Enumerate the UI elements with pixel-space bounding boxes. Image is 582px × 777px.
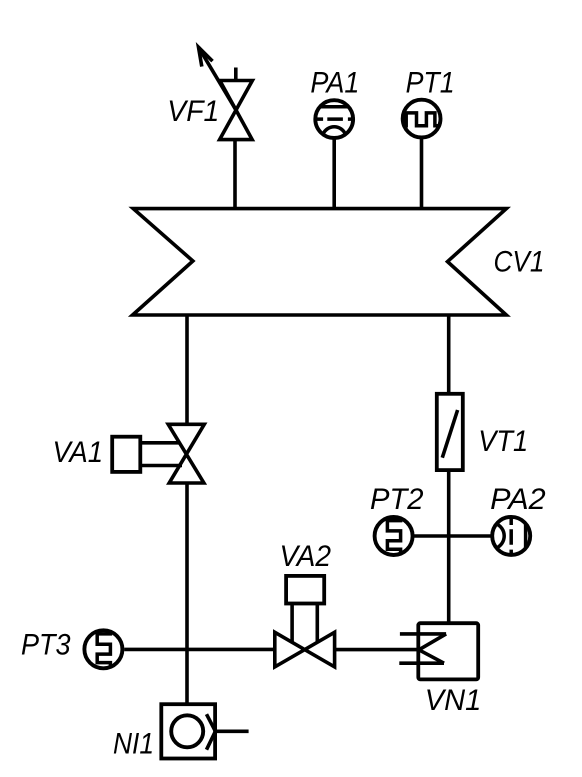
svg-text:PA2: PA2: [490, 483, 546, 516]
svg-text:PT2: PT2: [370, 483, 424, 516]
svg-text:VN1: VN1: [425, 684, 482, 717]
svg-text:VA2: VA2: [280, 540, 332, 573]
svg-text:NI1: NI1: [113, 727, 154, 760]
svg-text:PT3: PT3: [21, 628, 71, 661]
svg-text:PA1: PA1: [310, 67, 359, 100]
svg-text:VF1: VF1: [167, 95, 219, 128]
svg-text:VT1: VT1: [478, 425, 528, 458]
svg-text:CV1: CV1: [494, 245, 545, 278]
svg-text:PT1: PT1: [406, 67, 455, 100]
svg-text:VA1: VA1: [53, 436, 104, 469]
